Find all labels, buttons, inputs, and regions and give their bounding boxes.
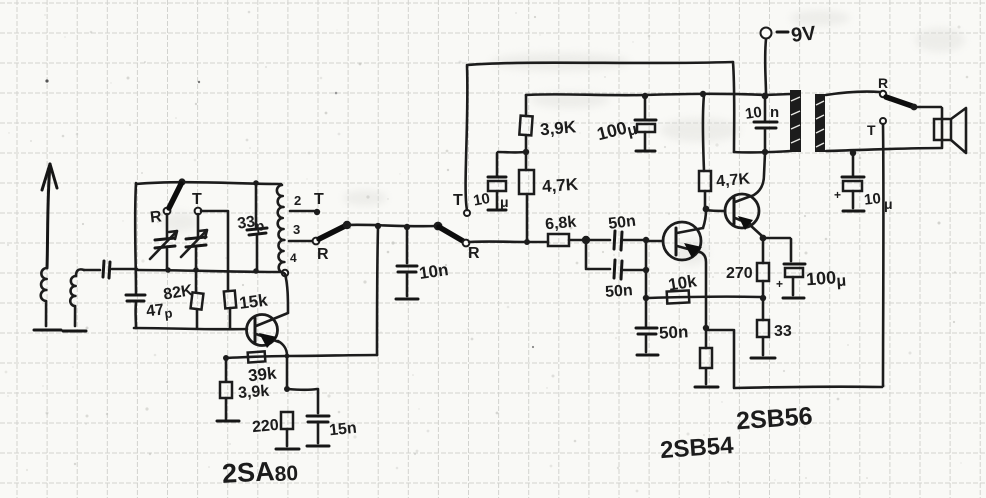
node Q3 emitter bbox=[760, 235, 767, 242]
svg-text:50n: 50n bbox=[659, 322, 689, 343]
node dots top wire bbox=[178, 178, 185, 185]
wire lever to speaker bbox=[915, 107, 942, 147]
wire cap to box bbox=[112, 268, 137, 271]
svg-text:4,7K: 4,7K bbox=[541, 175, 579, 197]
capacitor 50n bottom bbox=[636, 328, 657, 352]
speaker R contact bbox=[880, 91, 886, 97]
220 end bar bbox=[276, 448, 299, 451]
node Q2 base bbox=[643, 237, 649, 243]
coupling coil L2 bbox=[70, 269, 84, 326]
wire emitter to 100u bbox=[764, 238, 791, 261]
emitter resistor unlabeled bbox=[700, 329, 712, 384]
svg-text:μ: μ bbox=[500, 194, 509, 210]
vertical wire to lower wire bbox=[377, 227, 378, 355]
svg-text:220: 220 bbox=[251, 417, 279, 436]
capacitor 47p bbox=[126, 295, 145, 301]
resistor 3.9k bbox=[220, 359, 232, 419]
node Q2 emitter junction bbox=[703, 325, 709, 331]
top wire right corner down bbox=[733, 62, 734, 152]
tap3 wire bbox=[289, 240, 312, 243]
capacitor 50n lower loop bbox=[586, 242, 644, 279]
wire 10k bbox=[648, 297, 760, 298]
svg-text:T: T bbox=[314, 191, 324, 208]
junction blob bbox=[582, 236, 590, 244]
15n end bar bbox=[307, 445, 329, 448]
svg-text:3,9K: 3,9K bbox=[539, 117, 577, 139]
antenna ground bar bbox=[34, 329, 61, 332]
svg-text:4: 4 bbox=[290, 251, 297, 265]
battery terminal -9V bbox=[761, 28, 789, 95]
lower wire with 39k bbox=[225, 351, 377, 362]
wire switch to R contact 2 bbox=[348, 225, 437, 226]
switch lever 2 bbox=[439, 227, 463, 241]
node transformer foot bbox=[762, 149, 768, 155]
transformer white streaks bbox=[791, 97, 824, 147]
variable capacitor R bbox=[150, 214, 177, 270]
3.9k end bar bbox=[217, 420, 239, 423]
transformer secondary winding bbox=[815, 94, 825, 152]
50n bottom end bar bbox=[637, 354, 658, 357]
wire R contact to 6.8k bbox=[469, 240, 548, 243]
lower wire dots bbox=[223, 354, 289, 361]
svg-text:R: R bbox=[317, 246, 329, 263]
Q3 collector wire bbox=[752, 153, 765, 196]
speaker T contact bbox=[880, 118, 886, 124]
wire secondary to R contact bbox=[826, 92, 880, 95]
box bottom wire / Q1 base wire bbox=[134, 328, 247, 329]
svg-text:3,9k: 3,9k bbox=[238, 383, 270, 402]
series capacitor bbox=[103, 261, 110, 278]
resistor 82K bbox=[191, 270, 204, 328]
10n end bar bbox=[396, 298, 418, 301]
svg-text:10n: 10n bbox=[418, 260, 450, 283]
transformer primary winding bbox=[790, 90, 801, 152]
rail dots bbox=[642, 91, 769, 100]
svg-text:T: T bbox=[453, 192, 463, 209]
capacitor 15n bbox=[288, 389, 329, 443]
svg-text:4,7K: 4,7K bbox=[716, 171, 752, 191]
speaker bbox=[934, 108, 966, 153]
transistor Q3 bbox=[706, 194, 762, 236]
100u end bar bbox=[636, 150, 655, 153]
antenna coil L1 bbox=[41, 268, 47, 326]
resistor 3.9K mid bbox=[519, 95, 532, 151]
resistor 6.8k bbox=[548, 234, 584, 246]
capacitor 50n upper bbox=[587, 231, 644, 250]
svg-text:50n: 50n bbox=[607, 213, 636, 233]
variable capacitor T bbox=[181, 214, 207, 270]
wire T contact up to top wire bbox=[466, 66, 468, 210]
svg-text:R: R bbox=[878, 75, 888, 91]
node 10u speaker bbox=[850, 150, 856, 156]
supply rail wire bbox=[526, 94, 791, 95]
node 270/33 bbox=[760, 295, 766, 301]
svg-text:3: 3 bbox=[293, 222, 300, 237]
switch R lever bbox=[169, 184, 181, 208]
svg-text:270: 270 bbox=[726, 265, 753, 282]
capacitor 10u speaker bbox=[842, 153, 864, 208]
coil L2 end bar bbox=[63, 330, 86, 333]
svg-text:+: + bbox=[834, 188, 841, 202]
capacitor 33p bbox=[247, 183, 267, 270]
T contact 2 bbox=[464, 210, 470, 216]
wire T contact to 15k line bbox=[201, 211, 228, 291]
switch T contact bbox=[195, 208, 202, 215]
vertical wire at Q2 base bbox=[645, 242, 648, 326]
svg-text:33: 33 bbox=[774, 323, 792, 340]
svg-text:39k: 39k bbox=[247, 363, 278, 385]
svg-text:n: n bbox=[770, 104, 779, 121]
svg-text:10: 10 bbox=[472, 190, 491, 210]
svg-text:μ: μ bbox=[884, 196, 893, 212]
100u output end bar bbox=[783, 297, 804, 300]
Q2 collector wire up bbox=[703, 210, 706, 228]
resistor 270 bbox=[757, 239, 769, 297]
T line down bbox=[882, 124, 885, 386]
10u end bar bbox=[488, 209, 506, 212]
wire emitter to right bbox=[706, 330, 734, 387]
tap3 R contact bbox=[313, 238, 320, 245]
capacitor 10n output bbox=[754, 96, 777, 151]
svg-text:T: T bbox=[867, 122, 876, 138]
wire to transformer foot bbox=[734, 151, 791, 152]
resistor 220 bbox=[281, 356, 293, 446]
svg-text:15n: 15n bbox=[328, 420, 357, 440]
capacitor 10u input bbox=[488, 152, 526, 208]
svg-text:10: 10 bbox=[863, 190, 881, 209]
wire dots bbox=[375, 222, 443, 231]
node dot bbox=[524, 239, 530, 245]
svg-text:6,8k: 6,8k bbox=[544, 214, 577, 234]
capacitor 100u supply bbox=[635, 96, 656, 150]
svg-text:50n: 50n bbox=[605, 282, 634, 301]
emitter resistor end bar bbox=[695, 386, 718, 389]
svg-text:9V: 9V bbox=[790, 22, 817, 47]
svg-text:2: 2 bbox=[294, 193, 301, 208]
resistor 4.7K mid bbox=[519, 153, 534, 240]
R contact 2 bbox=[463, 240, 470, 247]
speaker lever bbox=[886, 97, 912, 106]
svg-text:15k: 15k bbox=[238, 290, 269, 312]
tap2 wire bbox=[290, 210, 314, 213]
resistor 4.7K driver bbox=[699, 95, 711, 207]
node 3.9K/4.7K bbox=[523, 149, 529, 155]
tuning coil taps bbox=[277, 185, 285, 273]
wire antenna to cap bbox=[84, 269, 100, 272]
box top wire bbox=[136, 182, 281, 184]
resistor 10k bbox=[667, 290, 690, 303]
switch lever 1 bbox=[319, 226, 345, 239]
resistor 15k bbox=[224, 291, 236, 329]
transistor Q2 bbox=[646, 222, 706, 327]
10u speaker end bar bbox=[843, 210, 864, 213]
33 end bar bbox=[751, 357, 775, 360]
wire secondary bottom bbox=[826, 148, 942, 151]
box left wire bbox=[134, 183, 137, 328]
switch R contact bbox=[164, 208, 171, 215]
tap2 dot bbox=[314, 209, 320, 215]
svg-text:R: R bbox=[468, 245, 480, 262]
capacitor 10n bbox=[397, 228, 417, 296]
resistor 33 bbox=[757, 299, 769, 355]
svg-text:+: + bbox=[776, 277, 783, 291]
svg-text:2SB54: 2SB54 bbox=[659, 432, 735, 464]
node 10k bbox=[643, 295, 649, 301]
Q1 collector wire bbox=[285, 274, 288, 312]
bottom return wire bbox=[734, 387, 882, 388]
svg-text:10: 10 bbox=[744, 104, 763, 123]
mid wire bbox=[136, 270, 281, 272]
capacitor 100u output bbox=[784, 264, 805, 295]
svg-text:T: T bbox=[192, 191, 202, 208]
mid wire dots bbox=[165, 267, 288, 276]
transistor Q1 bbox=[247, 313, 289, 356]
svg-text:R: R bbox=[149, 208, 163, 226]
antenna bbox=[42, 164, 57, 268]
svg-text:2SB56: 2SB56 bbox=[735, 402, 813, 435]
top wire 1 bbox=[467, 62, 733, 65]
node Q3 base bbox=[703, 206, 710, 213]
